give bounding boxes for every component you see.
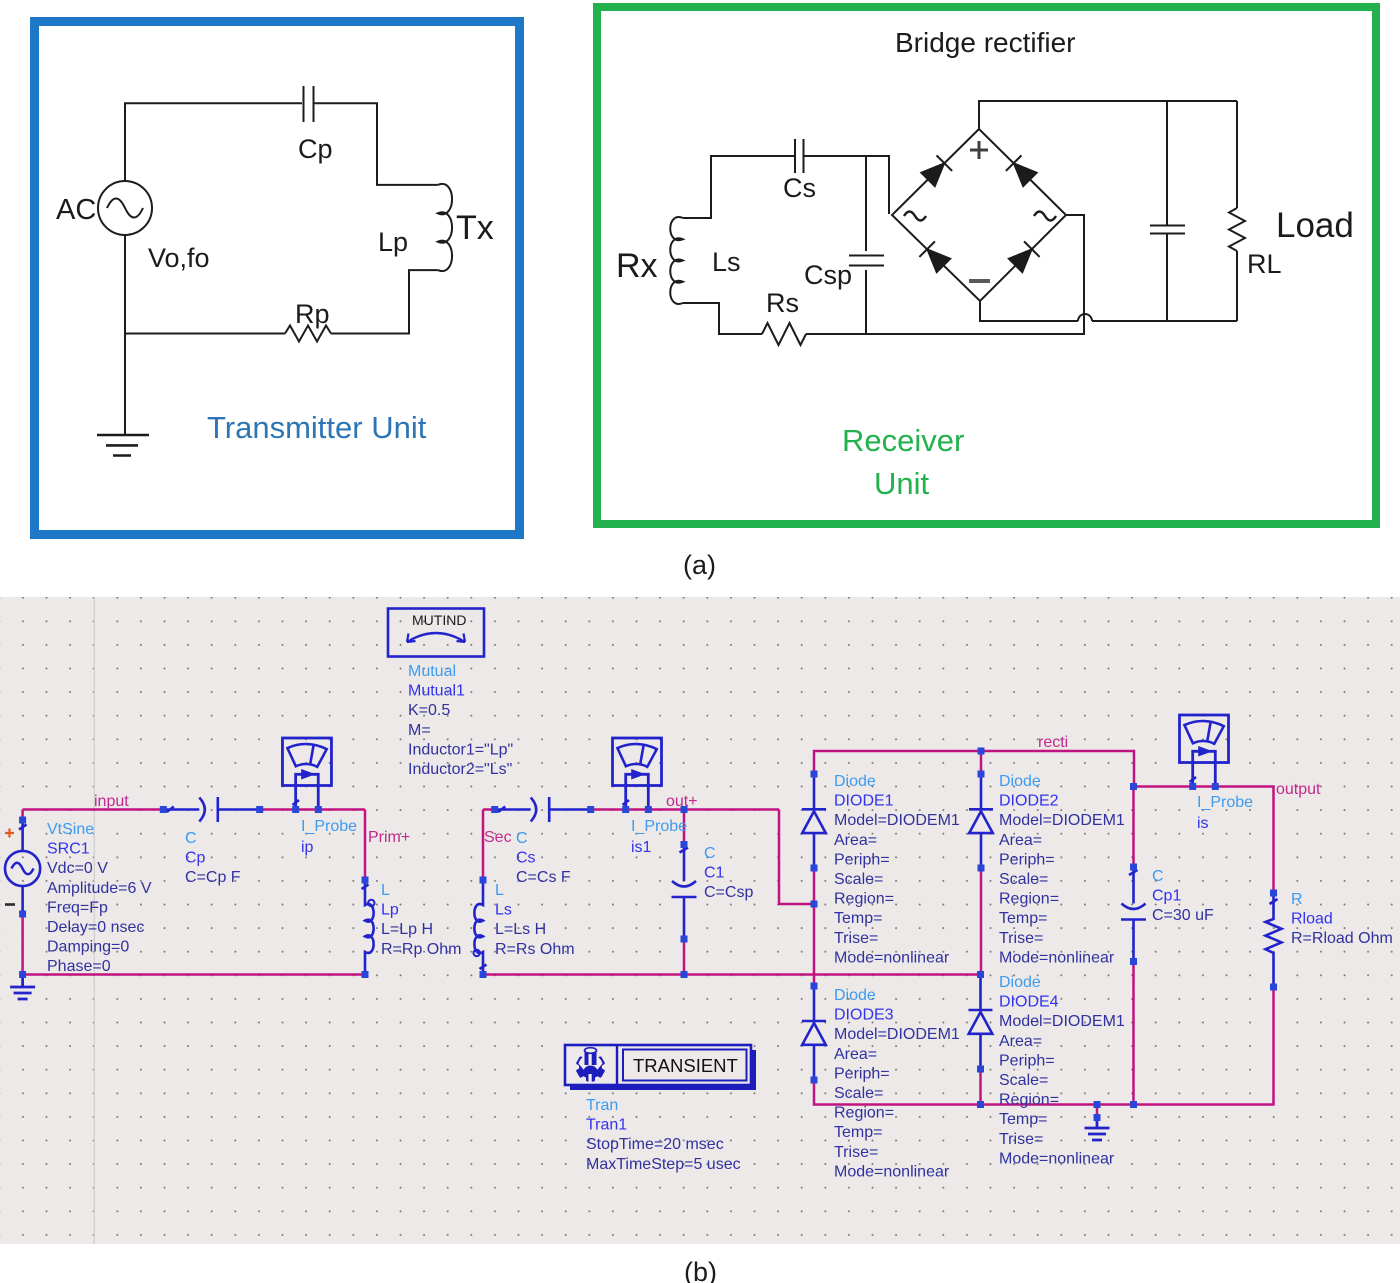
svg-text:R=Rp Ohm: R=Rp Ohm: [381, 941, 461, 958]
node ip p1: [292, 806, 299, 813]
svg-text:Trise=: Trise=: [834, 1144, 878, 1161]
blue component symbols: [5, 715, 1282, 1140]
svg-text:Temp=: Temp=: [999, 910, 1047, 927]
inductor Ls symbol: [474, 880, 487, 975]
svg-text:Freq=Fp: Freq=Fp: [47, 899, 108, 916]
svg-text:Cs: Cs: [516, 850, 536, 867]
svg-text:R=Rload Ohm: R=Rload Ohm: [1291, 930, 1393, 947]
bridge plus symbol: [970, 141, 988, 159]
svg-text:Scale=: Scale=: [999, 871, 1048, 888]
wire: AC bottom: [124, 235, 126, 334]
node D4 p2: [977, 1066, 984, 1073]
svg-text:(b): (b): [684, 1257, 717, 1283]
svg-text:Periph=: Periph=: [999, 851, 1055, 868]
svg-text:VtSine: VtSine: [47, 821, 94, 838]
svg-text:MUTIND: MUTIND: [412, 612, 466, 628]
svg-text:Area=: Area=: [999, 1033, 1042, 1050]
node C1 p2: [681, 936, 688, 943]
svg-text:out+: out+: [666, 793, 698, 810]
wire D2 anode to bottom rail: [980, 868, 983, 975]
load resistor RL: [1236, 101, 1238, 208]
node ip p2: [315, 806, 322, 813]
svg-text:Region=: Region=: [834, 1105, 894, 1122]
wire Sec vertical: [483, 810, 495, 881]
node D4 return: [977, 1101, 984, 1108]
node squares: [19, 748, 1277, 1122]
AC source circle: [98, 181, 152, 235]
svg-text:Periph=: Periph=: [999, 1052, 1055, 1069]
wire: bridge bottom to output rail: [980, 301, 1078, 321]
wire: Lp bottom to Rp: [331, 270, 438, 333]
wire hop over return wire: [1078, 314, 1092, 321]
resistor Rs: [762, 323, 806, 345]
wire: Rs to bridge right return: [806, 215, 1084, 334]
I_Probe ip symbol: [282, 738, 331, 810]
svg-text:Mode=nonlinear: Mode=nonlinear: [834, 949, 950, 966]
svg-text:Rp: Rp: [295, 299, 330, 329]
wire D4 anode to return rail: [979, 1069, 982, 1105]
node src gnd: [19, 971, 26, 978]
svg-text:is: is: [1197, 815, 1209, 832]
svg-text:M=: M=: [408, 722, 431, 739]
svg-text:Area=: Area=: [834, 832, 877, 849]
wire Prim+ vertical: [364, 810, 367, 881]
inductor Rx coil (Ls): [670, 217, 683, 304]
wire: coil bottom to Rs: [683, 303, 762, 334]
wire Cs to out+: [591, 808, 779, 811]
svg-text:C: C: [185, 830, 197, 847]
resistor Rp: [285, 326, 331, 342]
wire input rail left: [23, 810, 164, 821]
svg-text:Rs: Rs: [766, 288, 799, 318]
svg-text:Cp: Cp: [298, 134, 333, 164]
wire: bridge top to DC rail: [979, 101, 1237, 129]
svg-text:Phase=0: Phase=0: [47, 958, 111, 975]
svg-text:Inductor1="Lp": Inductor1="Lp": [408, 741, 513, 758]
capacitor Cs: [794, 139, 796, 173]
ground: [97, 434, 149, 437]
svg-text:Vo,fo: Vo,fo: [148, 243, 210, 273]
capacitor Cp1 symbol: [1121, 867, 1146, 962]
svg-text:R: R: [1291, 891, 1303, 908]
node D1 p1: [811, 771, 818, 778]
svg-text:Prim+: Prim+: [368, 829, 410, 846]
svg-text:C=Cp F: C=Cp F: [185, 869, 241, 886]
svg-text:Cp: Cp: [185, 850, 206, 867]
node D3 p1: [811, 983, 818, 990]
svg-text:C: C: [1152, 868, 1164, 885]
capacitor Cp symbol: [163, 797, 259, 822]
svg-text:Cs: Cs: [783, 173, 816, 203]
svg-text:I_Probe: I_Probe: [1197, 794, 1253, 811]
svg-text:ip: ip: [301, 839, 314, 856]
svg-text:L: L: [495, 882, 504, 899]
node D2 p1: [978, 771, 985, 778]
source VtSine SRC1 symbol: [21, 820, 24, 851]
node src bottom: [19, 911, 26, 918]
svg-text:Tran: Tran: [586, 1097, 618, 1114]
bridge minus symbol: [969, 279, 990, 283]
inductor Lp (Tx coil): [438, 184, 452, 271]
svg-text:Periph=: Periph=: [834, 1065, 890, 1082]
svg-text:output: output: [1276, 781, 1321, 798]
svg-text:R=Rs Ohm: R=Rs Ohm: [495, 941, 575, 958]
wire secondary bottom rail: [483, 973, 981, 976]
node Cs p2: [587, 806, 594, 813]
node Rload p1: [1270, 890, 1277, 897]
node is p1: [1189, 783, 1196, 790]
svg-text:Load: Load: [1276, 206, 1354, 245]
node Rload p2: [1270, 984, 1277, 991]
node recti tee: [978, 748, 985, 755]
svg-text:Scale=: Scale=: [834, 871, 883, 888]
svg-text:Diode: Diode: [834, 773, 876, 790]
node Cp1 p1: [1130, 864, 1137, 871]
node src top: [19, 817, 26, 824]
wire ground stub: [1096, 1105, 1099, 1118]
svg-text:Model=DIODEM1: Model=DIODEM1: [834, 812, 960, 829]
svg-text:Diode: Diode: [999, 974, 1041, 991]
svg-text:Ls: Ls: [712, 247, 741, 277]
svg-text:C=30 uF: C=30 uF: [1152, 907, 1214, 924]
svg-text:Amplitude=6 V: Amplitude=6 V: [47, 880, 152, 897]
svg-text:Trise=: Trise=: [999, 930, 1043, 947]
node is p2: [1212, 783, 1219, 790]
svg-text:Lp: Lp: [381, 902, 399, 919]
svg-text:Inductor2="Ls": Inductor2="Ls": [408, 761, 512, 778]
capacitor Csp: [849, 255, 884, 257]
I_Probe is1 symbol: [613, 738, 662, 810]
svg-text:DIODE4: DIODE4: [999, 994, 1059, 1011]
wire: Csp branch top: [865, 156, 867, 251]
node gnd pin: [1094, 1114, 1101, 1121]
node gnd tee: [1094, 1101, 1101, 1108]
node D2 p2: [978, 865, 985, 872]
bridge ac tilde left: [904, 212, 926, 221]
svg-text:K=0.5: K=0.5: [408, 702, 450, 719]
node C1 rail: [681, 971, 688, 978]
svg-text:Unit: Unit: [874, 466, 930, 501]
svg-text:Periph=: Periph=: [834, 851, 890, 868]
svg-text:Csp: Csp: [804, 260, 852, 290]
svg-text:Trise=: Trise=: [999, 1131, 1043, 1148]
I_Probe is symbol: [1180, 715, 1229, 787]
svg-text:Temp=: Temp=: [999, 1111, 1047, 1128]
MUTIND component box: [388, 609, 484, 657]
svg-text:DIODE2: DIODE2: [999, 793, 1059, 810]
svg-text:Ls: Ls: [495, 902, 512, 919]
node Cs p1: [491, 806, 498, 813]
diode DIODE2 symbol: [969, 774, 993, 868]
svg-text:L=Lp H: L=Lp H: [381, 921, 433, 938]
TRANSIENT controller block: [565, 1045, 756, 1090]
wire C1 stubs: [683, 810, 686, 975]
svg-text:L=Ls H: L=Ls H: [495, 921, 546, 938]
svg-text:Diode: Diode: [834, 987, 876, 1004]
svg-text:Trise=: Trise=: [834, 930, 878, 947]
svg-text:C: C: [516, 830, 528, 847]
capacitor Cs symbol: [495, 797, 591, 822]
node out+ tee: [811, 901, 818, 908]
diode DIODE3 symbol: [802, 986, 826, 1080]
node bottom rail tee: [977, 971, 984, 978]
wire out+ down to D1 anode node: [779, 810, 814, 905]
wire dc return rail: [814, 987, 1274, 1105]
node is1 p2: [645, 806, 652, 813]
svg-text:I_Probe: I_Probe: [631, 818, 687, 835]
source polarity minus: [5, 903, 15, 906]
wire recti rail: [814, 751, 1134, 787]
svg-text:Scale=: Scale=: [834, 1085, 883, 1102]
wire: Cp to Lp coil: [315, 103, 438, 185]
svg-text:Bridge rectifier: Bridge rectifier: [895, 27, 1076, 58]
svg-text:Lp: Lp: [378, 227, 408, 257]
svg-text:Sec: Sec: [484, 829, 512, 846]
svg-text:SRC1: SRC1: [47, 841, 90, 858]
svg-text:Delay=0 nsec: Delay=0 nsec: [47, 919, 144, 936]
svg-text:L: L: [381, 882, 390, 899]
svg-text:Area=: Area=: [834, 1046, 877, 1063]
wire: output rail to load: [1092, 320, 1237, 322]
svg-text:Region=: Region=: [999, 1092, 1059, 1109]
wire: Cs to bridge left vertex: [805, 156, 890, 214]
svg-text:Mode=nonlinear: Mode=nonlinear: [999, 1150, 1115, 1167]
svg-text:Region=: Region=: [834, 891, 894, 908]
node Lp p2: [362, 971, 369, 978]
svg-text:MaxTimeStep=5 usec: MaxTimeStep=5 usec: [586, 1156, 741, 1173]
wire source bottom to ground corner: [23, 914, 365, 975]
wire output rail: [1134, 787, 1274, 894]
svg-text:C: C: [704, 845, 716, 862]
wire D4 cathode stub: [979, 973, 982, 976]
inductor Lp symbol: [362, 880, 375, 975]
svg-text:Damping=0: Damping=0: [47, 939, 129, 956]
svg-text:I_Probe: I_Probe: [301, 818, 357, 835]
svg-text:TRANSIENT: TRANSIENT: [633, 1055, 738, 1076]
node Cp p2: [256, 806, 263, 813]
schematic background: [0, 597, 1400, 1244]
svg-text:StopTime=20 msec: StopTime=20 msec: [586, 1136, 724, 1153]
diode D_BL: [919, 241, 951, 273]
svg-text:(a): (a): [683, 550, 716, 580]
svg-text:Receiver: Receiver: [842, 423, 964, 458]
wire input rail right: [260, 808, 365, 811]
svg-text:AC: AC: [56, 194, 96, 226]
node D1 p2: [811, 865, 818, 872]
svg-text:Area=: Area=: [999, 832, 1042, 849]
wire: AC source top to Cp: [125, 103, 302, 181]
node Ls p2: [480, 971, 487, 978]
diode DIODE1 symbol: [802, 774, 826, 868]
svg-text:Model=DIODEM1: Model=DIODEM1: [834, 1026, 960, 1043]
receiver box frame: [597, 7, 1376, 524]
svg-text:Mutual1: Mutual1: [408, 683, 465, 700]
filter capacitor branch: [1166, 101, 1168, 225]
diode D_TL: [920, 155, 952, 187]
wire: node to ground: [124, 334, 126, 435]
node D3 p2: [811, 1077, 818, 1084]
ground (rectifier): [1085, 1115, 1110, 1141]
wire: Rp to AC bottom node: [125, 333, 285, 335]
svg-text:Tx: Tx: [456, 209, 494, 247]
gear icon: [576, 1048, 606, 1082]
node output corner: [1130, 783, 1137, 790]
svg-text:input: input: [94, 793, 129, 810]
svg-text:Diode: Diode: [999, 773, 1041, 790]
svg-text:C1: C1: [704, 865, 725, 882]
svg-text:Vdc=0 V: Vdc=0 V: [47, 860, 108, 877]
bridge rectifier diamond: [892, 129, 1066, 301]
svg-text:Scale=: Scale=: [999, 1072, 1048, 1089]
svg-text:Model=DIODEM1: Model=DIODEM1: [999, 812, 1125, 829]
bridge ac tilde right: [1034, 212, 1056, 221]
node out+ junction: [681, 806, 688, 813]
diode DIODE4 symbol: [969, 975, 993, 1069]
resistor Rload symbol: [1266, 893, 1282, 987]
page boundary line: [93, 597, 95, 1244]
ground (source): [10, 975, 35, 1000]
node Lp p1: [362, 877, 369, 884]
node Cp1 p2: [1130, 958, 1137, 965]
svg-text:Mutual: Mutual: [408, 663, 456, 680]
svg-text:Cp1: Cp1: [1152, 888, 1181, 905]
node is1 p1: [622, 806, 629, 813]
svg-text:Region=: Region=: [999, 891, 1059, 908]
svg-text:DIODE1: DIODE1: [834, 793, 894, 810]
transmitter box frame: [35, 22, 520, 535]
wire: coil top to Cs: [683, 156, 794, 218]
node Ls p1: [480, 877, 487, 884]
svg-text:Transmitter Unit: Transmitter Unit: [207, 410, 427, 445]
node Cp p1: [160, 806, 167, 813]
svg-text:Mode=nonlinear: Mode=nonlinear: [834, 1163, 950, 1180]
node C1 p1: [681, 841, 688, 848]
capacitor C1 symbol: [672, 845, 697, 940]
svg-text:Temp=: Temp=: [834, 1124, 882, 1141]
wire D1 anode to D3 cathode: [813, 868, 816, 986]
diode D_TR: [1006, 155, 1038, 187]
svg-text:Model=DIODEM1: Model=DIODEM1: [999, 1013, 1125, 1030]
svg-text:Mode=nonlinear: Mode=nonlinear: [999, 949, 1115, 966]
wire Cp1 stubs: [1132, 787, 1135, 1105]
source polarity plus: [5, 829, 14, 838]
svg-text:Rload: Rload: [1291, 911, 1333, 928]
svg-text:RL: RL: [1247, 249, 1282, 279]
svg-text:Tran1: Tran1: [586, 1117, 627, 1134]
svg-text:DIODE3: DIODE3: [834, 1007, 894, 1024]
wire: Csp bottom: [865, 270, 867, 334]
node Cp1 return: [1130, 1101, 1137, 1108]
svg-text:Temp=: Temp=: [834, 910, 882, 927]
svg-text:Rx: Rx: [616, 247, 658, 285]
diode D_BR: [1008, 241, 1040, 273]
svg-text:recti: recti: [1038, 734, 1068, 751]
svg-text:C=Cs F: C=Cs F: [516, 869, 571, 886]
capacitor Cp: [303, 86, 305, 122]
svg-text:is1: is1: [631, 839, 652, 856]
svg-text:C=Csp: C=Csp: [704, 884, 753, 901]
